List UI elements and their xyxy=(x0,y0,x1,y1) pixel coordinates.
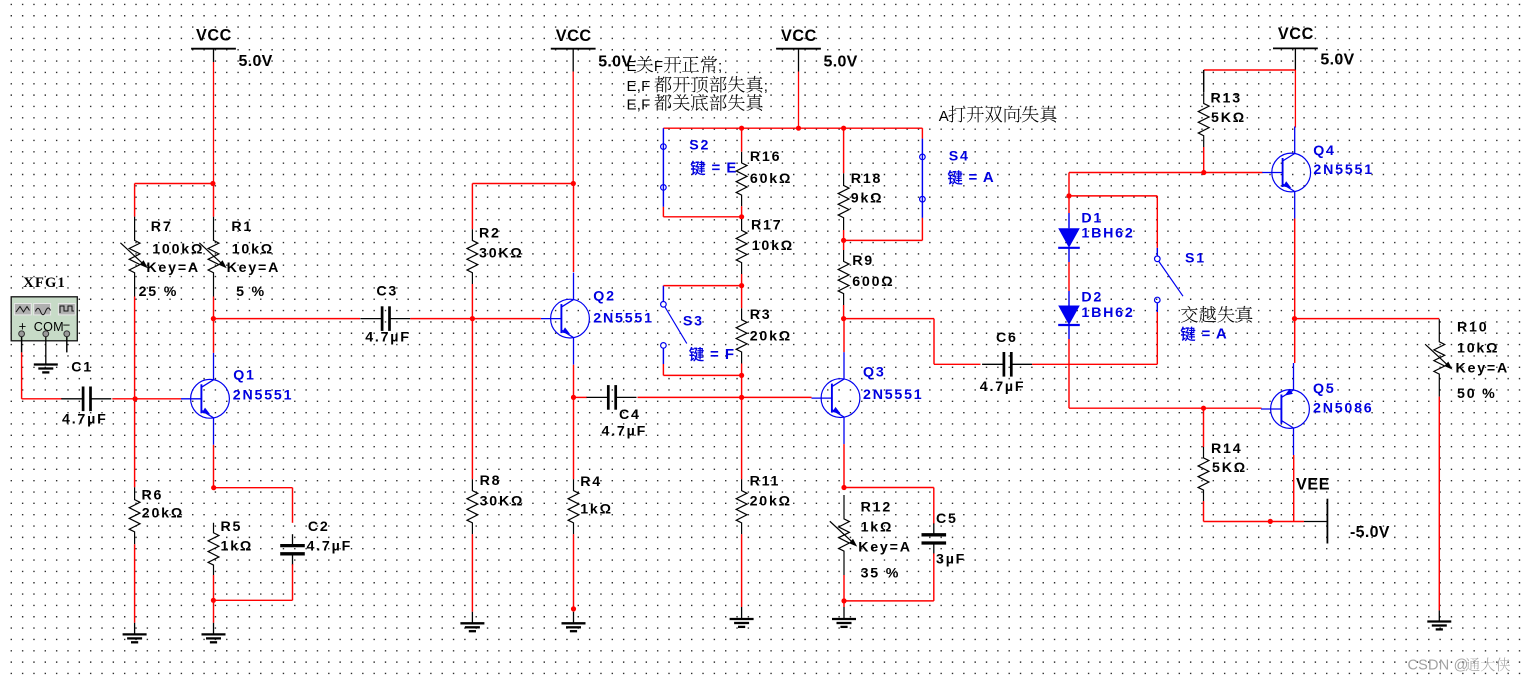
transistor Q3 xyxy=(821,379,860,418)
ground xyxy=(471,612,473,624)
capacitor C2 xyxy=(292,534,294,545)
wire xyxy=(1203,408,1205,447)
potentiometer R7 xyxy=(129,217,140,297)
switch S1 key label xyxy=(1180,327,1195,342)
wire xyxy=(843,601,845,607)
wire xyxy=(471,184,473,230)
svg-text:5.0V: 5.0V xyxy=(824,53,858,70)
svg-text:R6: R6 xyxy=(142,487,164,503)
junction xyxy=(841,126,846,131)
wire -- top rail to Q4 base xyxy=(1069,172,1263,174)
switch S3 key label xyxy=(689,347,704,362)
wire xyxy=(1294,219,1296,319)
wire xyxy=(1293,455,1295,522)
wire xyxy=(472,183,573,185)
capacitor C4 xyxy=(587,396,609,398)
junction xyxy=(739,373,744,378)
wire xyxy=(213,600,215,623)
svg-text:E,F: E,F xyxy=(627,97,651,114)
wire xyxy=(573,534,575,612)
transistor Q2 xyxy=(551,299,590,338)
resistor R3 xyxy=(736,308,747,363)
transistor Q5 (PNP) xyxy=(1271,390,1310,429)
junction xyxy=(470,316,475,321)
wire xyxy=(844,318,934,320)
svg-text:VEE: VEE xyxy=(1296,476,1330,494)
junction xyxy=(133,396,138,401)
wire xyxy=(573,365,575,398)
wire xyxy=(573,397,575,479)
switch S4 key label xyxy=(948,170,963,185)
svg-text:600Ω: 600Ω xyxy=(852,274,894,290)
wire xyxy=(135,183,214,185)
svg-text:Key=A: Key=A xyxy=(1456,360,1510,376)
svg-text:R2: R2 xyxy=(479,225,501,241)
svg-text:R8: R8 xyxy=(480,473,502,489)
junction xyxy=(211,485,216,490)
svg-text:10kΩ: 10kΩ xyxy=(752,238,794,254)
junction xyxy=(841,316,846,321)
svg-text:100kΩ: 100kΩ xyxy=(152,242,204,258)
wire xyxy=(1068,262,1070,291)
wire xyxy=(843,575,845,601)
svg-text:R13: R13 xyxy=(1211,91,1242,107)
junction xyxy=(739,214,744,219)
wire xyxy=(214,487,293,489)
wire xyxy=(844,487,934,489)
svg-text:4.7µF: 4.7µF xyxy=(980,379,1026,395)
svg-text:E: E xyxy=(627,58,637,75)
svg-text:S2: S2 xyxy=(689,138,710,154)
svg-text:R10: R10 xyxy=(1457,320,1488,336)
junction xyxy=(739,395,744,400)
wire xyxy=(662,207,664,217)
svg-text:D1: D1 xyxy=(1081,211,1103,227)
capacitor C6 xyxy=(982,363,1004,365)
capacitor C3 xyxy=(360,318,382,320)
svg-text:D2: D2 xyxy=(1081,290,1103,306)
svg-text:= F: = F xyxy=(710,346,735,363)
junction xyxy=(571,395,576,400)
ground xyxy=(213,623,215,635)
svg-text:R12: R12 xyxy=(861,499,892,515)
svg-text:2N5551: 2N5551 xyxy=(233,387,293,403)
svg-text:R14: R14 xyxy=(1211,441,1242,457)
wire xyxy=(843,319,845,353)
wire xyxy=(843,240,845,250)
svg-text:Q5: Q5 xyxy=(1313,381,1336,397)
svg-text:C2: C2 xyxy=(308,519,330,535)
junction xyxy=(211,598,216,603)
wire xyxy=(573,184,575,273)
svg-text:1BH62: 1BH62 xyxy=(1081,226,1134,242)
svg-text:5KΩ: 5KΩ xyxy=(1212,460,1247,476)
wire xyxy=(1294,319,1296,363)
svg-text:4.7µF: 4.7µF xyxy=(602,424,648,440)
resistor R8 xyxy=(467,479,478,534)
junction xyxy=(211,316,216,321)
wire xyxy=(574,396,588,398)
svg-text:VCC: VCC xyxy=(196,27,232,45)
svg-text:4.7µF: 4.7µF xyxy=(62,412,108,428)
junction xyxy=(1066,193,1071,198)
wire xyxy=(471,319,473,480)
switch S2 key label xyxy=(690,161,705,176)
junction xyxy=(1201,406,1206,411)
svg-text:VCC: VCC xyxy=(556,27,592,45)
resistor R9 xyxy=(838,250,849,305)
svg-text:R5: R5 xyxy=(221,519,243,535)
wire xyxy=(1156,312,1158,364)
switch S2 xyxy=(662,128,664,207)
svg-text:4.7µF: 4.7µF xyxy=(307,539,353,555)
wire xyxy=(213,297,215,319)
svg-text:−: − xyxy=(63,317,71,332)
svg-text:Key=A: Key=A xyxy=(858,540,912,556)
svg-text:COM: COM xyxy=(34,320,64,334)
wire xyxy=(134,297,136,399)
wire xyxy=(1068,173,1070,214)
svg-text:XFG1: XFG1 xyxy=(23,275,66,291)
svg-text:20kΩ: 20kΩ xyxy=(750,329,792,345)
svg-text:Q4: Q4 xyxy=(1313,143,1336,159)
wire xyxy=(843,444,845,487)
transistor Q4 xyxy=(1272,153,1311,192)
wire xyxy=(1156,196,1158,248)
svg-text:= E: = E xyxy=(712,160,738,177)
wire xyxy=(1203,501,1205,522)
svg-text:1kΩ: 1kΩ xyxy=(580,501,613,517)
wire xyxy=(134,544,136,623)
resistor R17 xyxy=(736,219,747,274)
svg-text:25 %: 25 % xyxy=(139,284,179,300)
svg-text:30KΩ: 30KΩ xyxy=(479,246,524,262)
wire xyxy=(292,564,294,600)
wire xyxy=(1203,147,1205,173)
wire xyxy=(134,184,136,217)
junction xyxy=(1292,316,1297,321)
svg-text:R3: R3 xyxy=(750,307,772,323)
wire xyxy=(1203,70,1205,92)
wire xyxy=(741,206,743,217)
wire xyxy=(1204,69,1296,71)
svg-text:Q1: Q1 xyxy=(233,368,256,384)
wire xyxy=(1295,318,1440,320)
grid dots xyxy=(11,3,1523,5)
svg-text:50 %: 50 % xyxy=(1457,386,1497,402)
wire xyxy=(1438,397,1440,611)
svg-text:= A: = A xyxy=(969,169,995,186)
svg-text:5.0V: 5.0V xyxy=(1320,52,1354,69)
svg-text:VCC: VCC xyxy=(1278,25,1314,43)
wire xyxy=(741,364,743,398)
transistor Q1 xyxy=(191,379,230,418)
svg-text:R1: R1 xyxy=(231,219,253,235)
wire xyxy=(663,285,741,287)
diode D2 xyxy=(1058,306,1080,326)
svg-text:4.7µF: 4.7µF xyxy=(365,330,411,346)
potentiometer R1 xyxy=(208,217,219,297)
resistor R16 xyxy=(736,152,747,207)
junction xyxy=(841,485,846,490)
ground xyxy=(45,364,47,366)
svg-text:C6: C6 xyxy=(996,330,1018,346)
wire xyxy=(213,445,215,488)
potentiometer R12 xyxy=(839,495,850,575)
svg-text:A: A xyxy=(939,108,949,125)
ground xyxy=(134,623,136,635)
svg-text:Key=A: Key=A xyxy=(227,260,281,276)
svg-text:C1: C1 xyxy=(71,360,93,376)
svg-text:S1: S1 xyxy=(1185,251,1206,267)
junction xyxy=(571,181,576,186)
svg-text:5 %: 5 % xyxy=(236,284,266,300)
svg-text:S3: S3 xyxy=(683,314,704,330)
wire xyxy=(843,230,845,240)
svg-text:2N5551: 2N5551 xyxy=(1313,162,1374,178)
svg-text:S4: S4 xyxy=(949,148,970,164)
svg-text:10kΩ: 10kΩ xyxy=(232,242,274,258)
wire xyxy=(213,575,215,600)
resistor R2 xyxy=(467,229,478,284)
wire xyxy=(921,218,923,241)
svg-text:10kΩ: 10kΩ xyxy=(1457,341,1499,357)
wire xyxy=(663,127,922,129)
svg-text:F: F xyxy=(654,58,663,75)
svg-text:60kΩ: 60kΩ xyxy=(750,171,792,187)
resistor R5 xyxy=(208,523,219,575)
svg-text:1kΩ: 1kΩ xyxy=(221,539,254,555)
wire xyxy=(741,397,743,479)
wire xyxy=(741,274,743,286)
svg-text:;: ; xyxy=(718,58,722,75)
svg-text:;: ; xyxy=(764,78,768,95)
wire xyxy=(66,337,68,353)
wire xyxy=(45,337,47,365)
svg-text:R16: R16 xyxy=(750,149,781,165)
svg-text:VCC: VCC xyxy=(781,27,817,45)
wire xyxy=(843,128,845,173)
svg-text:R17: R17 xyxy=(751,218,782,234)
note crossover distortion xyxy=(1181,306,1198,323)
svg-text:3µF: 3µF xyxy=(936,551,966,567)
junction xyxy=(796,126,801,131)
svg-text:C3: C3 xyxy=(376,284,398,300)
wire xyxy=(213,319,215,353)
svg-text:5.0V: 5.0V xyxy=(239,53,273,70)
svg-text:2N5551: 2N5551 xyxy=(863,387,924,403)
switch S3 xyxy=(662,286,664,302)
wire xyxy=(662,364,664,375)
resistor R4 xyxy=(568,479,579,534)
diode D1 xyxy=(1058,228,1080,248)
junction xyxy=(739,283,744,288)
svg-text:2N5086: 2N5086 xyxy=(1313,401,1374,417)
capacitor C1 xyxy=(61,398,83,400)
svg-text:1kΩ: 1kΩ xyxy=(861,519,894,535)
svg-text:5KΩ: 5KΩ xyxy=(1211,110,1246,126)
wire xyxy=(471,284,473,319)
svg-text:R4: R4 xyxy=(580,474,602,490)
svg-text:CSDN @: CSDN @ xyxy=(1408,658,1469,674)
junction xyxy=(841,238,846,243)
wire xyxy=(135,398,181,400)
potentiometer R10 xyxy=(1434,319,1445,396)
svg-text:R9: R9 xyxy=(852,253,874,269)
svg-text:Key=A: Key=A xyxy=(146,260,200,276)
switch S4 xyxy=(921,128,923,138)
wire xyxy=(410,318,541,320)
watermark xyxy=(1408,658,1511,674)
wire xyxy=(933,553,935,601)
wire xyxy=(134,399,136,487)
wire xyxy=(21,337,23,353)
wire xyxy=(471,534,473,612)
svg-text:C4: C4 xyxy=(619,407,641,423)
svg-text:R7: R7 xyxy=(151,219,173,235)
resistor R14 xyxy=(1198,447,1209,501)
svg-text:= A: = A xyxy=(1202,326,1228,343)
svg-text:9kΩ: 9kΩ xyxy=(851,190,884,206)
svg-text:R11: R11 xyxy=(750,473,781,489)
svg-text:1BH62: 1BH62 xyxy=(1081,305,1134,321)
resistor R13 xyxy=(1198,92,1209,147)
resistor R11 xyxy=(736,479,747,534)
wire xyxy=(741,128,743,152)
wire xyxy=(741,286,743,309)
svg-text:Q3: Q3 xyxy=(863,364,886,380)
ground xyxy=(741,607,743,619)
wire xyxy=(213,184,215,217)
switch S1 xyxy=(1156,303,1158,312)
resistor R6 xyxy=(129,487,140,544)
power VEE symbol xyxy=(1304,521,1327,523)
svg-text:20kΩ: 20kΩ xyxy=(142,505,184,521)
wire xyxy=(112,398,135,400)
ground xyxy=(843,607,845,619)
junction xyxy=(1268,519,1273,524)
svg-text:-5.0V: -5.0V xyxy=(1350,524,1390,541)
wire xyxy=(213,318,360,320)
wire xyxy=(1032,363,1157,365)
ground xyxy=(1438,610,1440,621)
junction xyxy=(210,181,215,186)
svg-text:E,F: E,F xyxy=(627,78,651,95)
wire xyxy=(741,534,743,607)
wire xyxy=(638,396,812,398)
svg-text:20kΩ: 20kΩ xyxy=(750,494,792,510)
junction xyxy=(841,598,846,603)
svg-text:R18: R18 xyxy=(851,171,882,187)
junction xyxy=(1201,170,1206,175)
function generator XFG1 xyxy=(11,275,77,341)
svg-text:Q2: Q2 xyxy=(593,289,616,305)
wire xyxy=(1068,339,1070,408)
svg-text:35 %: 35 % xyxy=(861,566,901,582)
svg-text:2N5551: 2N5551 xyxy=(593,311,654,327)
junction xyxy=(739,126,744,131)
capacitor C5 xyxy=(933,523,935,534)
resistor R18 xyxy=(838,173,849,230)
ground xyxy=(573,612,575,624)
svg-text:30KΩ: 30KΩ xyxy=(480,494,525,510)
junction xyxy=(571,606,576,611)
wire xyxy=(843,305,845,319)
svg-text:C5: C5 xyxy=(936,511,958,527)
